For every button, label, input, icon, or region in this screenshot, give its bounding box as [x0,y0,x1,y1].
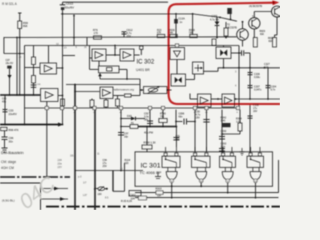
svg-text:0,047u: 0,047u [254,89,262,92]
svg-text:R96 47K: R96 47K [9,128,19,132]
svg-text:R M 02L A: R M 02L A [2,2,18,6]
svg-text:45u: 45u [2,101,7,104]
svg-text:60K: 60K [269,41,274,43]
svg-text:BC557B: BC557B [228,27,238,30]
svg-text:620: 620 [125,162,130,165]
svg-text:170: 170 [94,32,99,35]
svg-text:4,7u 5%: 4,7u 5% [210,18,220,21]
svg-text:(6,5G BL): (6,5G BL) [2,199,15,203]
svg-text:50K: 50K [189,31,194,34]
svg-text:radiomuseum.org: radiomuseum.org [113,88,134,92]
svg-text:67K: 67K [157,31,162,34]
svg-text:25V: 25V [103,165,108,168]
svg-text:161: 161 [70,154,75,157]
svg-text:R360 1,3K: R360 1,3K [144,140,157,144]
svg-text:10K: 10K [157,195,162,198]
svg-text:CM: stage: CM: stage [1,160,16,164]
svg-text:16V: 16V [196,117,201,120]
svg-text:9,7n: 9,7n [271,89,276,92]
svg-text:4,9n: 4,9n [264,66,269,69]
svg-text:0,68u: 0,68u [254,76,261,79]
svg-text:R303: R303 [156,188,163,191]
svg-text:54K: 54K [169,31,174,34]
svg-text:L07: L07 [83,194,88,197]
svg-text:R831: R831 [268,38,274,40]
svg-text:3,4K: 3,4K [221,120,226,123]
svg-text:R829: R829 [260,31,266,33]
svg-text:16u 6V: 16u 6V [6,62,14,65]
svg-text:104: 104 [131,197,136,200]
svg-text:60n: 60n [179,116,184,119]
svg-text:60K: 60K [260,34,265,36]
svg-text:10K: 10K [98,193,103,196]
svg-text:4GH CM: 4GH CM [1,166,14,170]
svg-text:50u/6V: 50u/6V [65,6,75,10]
svg-text:25V: 25V [127,35,132,38]
svg-text:10p: 10p [124,136,129,139]
svg-text:89K: 89K [23,24,28,28]
svg-text:IC 301: IC 301 [141,163,161,170]
svg-text:(4) BC557B: (4) BC557B [249,5,262,8]
svg-text:22u/6V: 22u/6V [9,112,17,116]
svg-text:30n: 30n [9,139,14,143]
svg-text:D38: D38 [127,115,132,118]
svg-text:60p: 60p [176,138,181,141]
svg-text:C33: C33 [9,109,14,113]
svg-text:U401 BR: U401 BR [136,68,150,72]
svg-text:40u PM: 40u PM [144,130,153,134]
svg-text:IC 302: IC 302 [137,59,155,65]
svg-text:16V: 16V [253,110,258,113]
svg-text:23Y: 23Y [58,166,63,169]
svg-text:DM-Baustein: DM-Baustein [1,150,24,155]
